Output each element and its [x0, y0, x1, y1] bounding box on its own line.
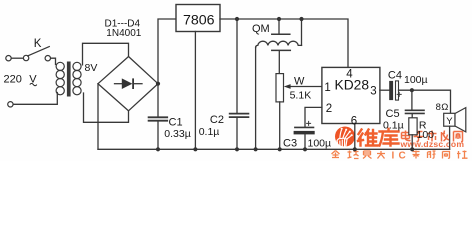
svg-text:7806: 7806 — [183, 12, 215, 28]
svg-text:C2: C2 — [210, 114, 224, 126]
svg-text:1: 1 — [324, 82, 330, 94]
wire secondary bottom to bridge bottom — [84, 93, 129, 122]
svg-text:220: 220 — [4, 73, 22, 85]
switch K blade — [28, 47, 50, 56]
wire bridge positive down to C1 — [157, 84, 159, 117]
resistor R body — [409, 118, 417, 135]
watermark row 电子市场网 — [402, 131, 463, 142]
node bridge positive — [156, 82, 160, 86]
svg-text:C1: C1 — [169, 117, 183, 129]
node C2 gnd — [235, 147, 239, 151]
wire pot bottom to ground bus — [279, 102, 281, 149]
watermark logo circle — [4, 5, 468, 162]
svg-text:100: 100 — [417, 129, 435, 141]
node C1 gnd — [156, 147, 160, 151]
wire switch to transformer primary top — [51, 58, 56, 64]
inductor QM winding — [256, 41, 302, 47]
node pin6 gnd — [353, 147, 357, 151]
svg-text:Ω: Ω — [441, 102, 448, 113]
svg-text:1N4001: 1N4001 — [106, 28, 141, 39]
wire QM right up to supply bus — [301, 19, 303, 45]
capacitor C3 — [295, 126, 314, 128]
wire bridge positive up to 7806 input — [158, 19, 176, 84]
watermark big characters 维库 — [358, 129, 399, 146]
capacitor across QM upper plate — [278, 19, 280, 34]
svg-text:0.1µ: 0.1µ — [383, 119, 404, 131]
switch K throw — [45, 56, 50, 61]
node output — [410, 88, 414, 92]
svg-text:4: 4 — [346, 68, 353, 80]
capacitor C5 — [406, 109, 425, 111]
wire 7806 output bus — [220, 19, 348, 67]
capacitor C1 — [149, 116, 168, 118]
wire node to C5 — [411, 90, 413, 109]
watermark bottom row 全球最大IC采购网站 — [332, 151, 386, 159]
svg-text:C3: C3 — [283, 137, 297, 149]
node QM gnd — [254, 147, 258, 151]
wire lower terminal to primary bottom — [13, 93, 57, 105]
svg-text:C4: C4 — [388, 69, 402, 81]
svg-text:2: 2 — [326, 103, 332, 115]
svg-text:8: 8 — [436, 102, 441, 113]
capacitor across QM lower plate — [272, 49, 291, 51]
bridge diode symbol — [115, 83, 123, 85]
wire pin6 to ground bus — [354, 124, 356, 150]
svg-text:I: I — [392, 151, 395, 161]
capacitor C2 — [236, 19, 238, 113]
switch K pole — [23, 55, 28, 60]
terminal lower — [8, 102, 13, 107]
svg-text:100µ: 100µ — [404, 74, 428, 86]
wire speaker to ground bus — [449, 126, 451, 149]
svg-text:5.1K: 5.1K — [290, 89, 312, 101]
wire pin2 to C3 — [305, 107, 322, 126]
svg-text:0.33µ: 0.33µ — [164, 128, 191, 140]
potentiometer wiper arrow — [284, 84, 291, 89]
circuit ink — [6, 5, 466, 152]
svg-text:0.1µ: 0.1µ — [199, 126, 220, 138]
potentiometer wiper wire to pin1 — [290, 86, 322, 88]
potentiometer W body — [276, 74, 284, 102]
svg-text:Y: Y — [446, 116, 453, 127]
transformer T primary winding — [56, 62, 64, 70]
node C2 top — [235, 17, 239, 21]
svg-text:8V: 8V — [85, 62, 98, 74]
node pot gnd — [278, 147, 282, 151]
wire pin3 to C4 — [380, 89, 389, 91]
wire R to ground bus — [411, 135, 413, 150]
transformer secondary winding 8V — [73, 62, 81, 70]
speaker Y cone — [455, 108, 466, 132]
svg-text:C5: C5 — [386, 108, 400, 120]
svg-text:C: C — [399, 151, 406, 161]
bridge rectifier D1-D4 diamond — [98, 57, 158, 111]
svg-text:6: 6 — [351, 115, 357, 127]
capacitor C4 polarity plus — [397, 92, 401, 96]
capacitor C4 — [389, 81, 393, 100]
wire QM left down to ground bus — [255, 48, 257, 150]
ground bus — [98, 148, 450, 150]
wire bridge negative down to ground bus — [97, 84, 99, 150]
wire C4 to speaker — [399, 90, 451, 113]
svg-text:K: K — [34, 38, 42, 50]
node cap top — [277, 17, 281, 21]
7806 ground lead — [194, 32, 196, 150]
transformer core — [67, 62, 71, 97]
IC U1 KD28 — [322, 67, 380, 123]
terminal upper — [6, 56, 11, 61]
node QM right — [299, 17, 303, 21]
node C3 gnd — [303, 147, 307, 151]
capacitor C3 polarity plus — [307, 121, 311, 125]
svg-text:100µ: 100µ — [308, 137, 332, 149]
wire secondary top to bridge top — [83, 43, 129, 65]
node 7806 gnd — [193, 147, 197, 151]
wire terminal to switch — [11, 57, 23, 59]
svg-text:W: W — [294, 76, 305, 88]
node R gnd — [410, 147, 414, 151]
regulator 7806 — [176, 5, 220, 32]
svg-text:3: 3 — [370, 86, 376, 98]
svg-text:QM: QM — [252, 23, 270, 35]
speaker Y box — [444, 113, 455, 126]
